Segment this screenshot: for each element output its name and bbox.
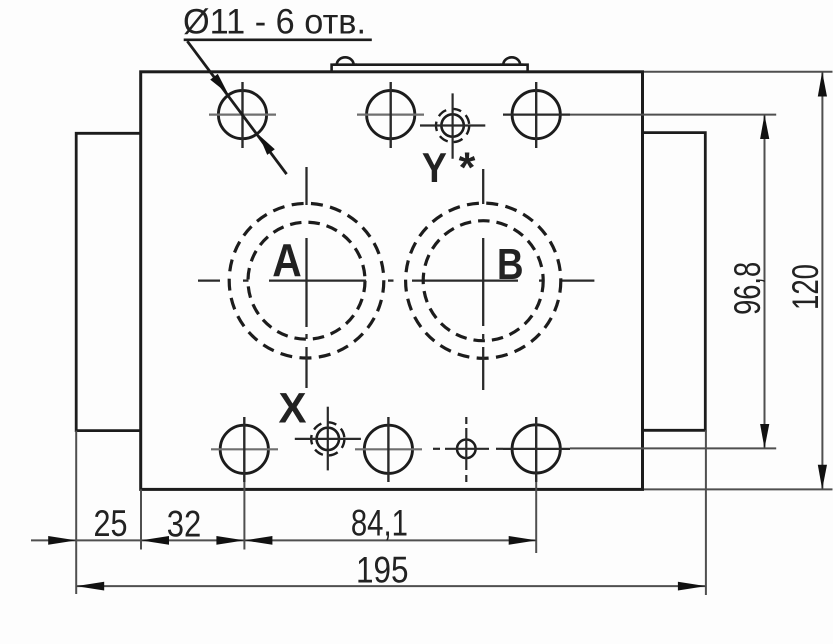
extension line right of bottom-right hole: [570, 447, 776, 449]
port B vertical centerline: [482, 169, 484, 390]
right flange outline: [643, 133, 706, 431]
dim 32 right arrow: [216, 536, 244, 545]
hole H1 top-left circle: [218, 91, 266, 139]
svg-text:Ø11 - 6 отв.: Ø11 - 6 отв.: [183, 3, 366, 42]
port A vertical centerline: [305, 167, 307, 388]
dim 195 left arrow: [76, 582, 104, 591]
port A inner dashed circle: [248, 222, 365, 339]
top tab bar: [332, 65, 528, 72]
dim 96,8 bottom arrow: [760, 424, 769, 448]
svg-text:120: 120: [785, 264, 826, 310]
dimension line 195: [76, 585, 706, 587]
small drain hole circle: [457, 440, 476, 459]
dim 120 top arrow: [818, 72, 827, 97]
pilot hole X centerlines: [295, 407, 361, 471]
hole H4 centerlines: [211, 417, 278, 482]
hole H6 centerlines: [503, 417, 570, 482]
callout leader line: [187, 41, 286, 174]
hole H4 bottom-left circle: [220, 425, 268, 473]
hole H2 top-middle circle: [367, 91, 415, 139]
svg-text:84,1: 84,1: [351, 503, 408, 544]
hole H1 centerlines: [209, 82, 276, 148]
hole H5 centerlines: [355, 417, 422, 482]
svg-text:*: *: [459, 144, 476, 192]
extension line flange left below: [75, 431, 77, 594]
extension line flange right below: [705, 430, 707, 595]
dim 120 bottom arrow: [818, 465, 827, 490]
port A horizontal centerline: [198, 279, 594, 281]
hole H3 top-right circle: [512, 91, 560, 139]
svg-text:32: 32: [167, 504, 202, 545]
hole H6 bottom-right circle: [512, 425, 560, 473]
dim 195 right arrow: [678, 582, 706, 591]
svg-text:195: 195: [356, 550, 409, 591]
dim 84,1 right arrow: [509, 536, 537, 545]
svg-text:96,8: 96,8: [727, 262, 768, 315]
pilot hole Y dashed circle: [436, 109, 469, 142]
dim 25 left arrow: [48, 536, 76, 545]
callout underline: [184, 38, 372, 41]
extension line plate left below: [140, 489, 142, 549]
hole H3 centerlines: [503, 82, 570, 148]
plate body outline: [141, 72, 643, 490]
extension line bottom-right corner: [644, 488, 833, 490]
callout arrowhead lower: [259, 135, 275, 155]
top tab bump right: [500, 57, 524, 64]
dim 84,1 left arrow: [244, 536, 272, 545]
svg-text:25: 25: [94, 503, 128, 544]
extension line top-right corner: [644, 71, 833, 73]
dim 25 right arrow: [141, 536, 169, 545]
dimension line 120: [821, 72, 823, 490]
hole H5 bottom-middle circle: [364, 425, 412, 473]
hole H2 centerlines: [357, 82, 424, 148]
pilot hole Y centerlines: [420, 93, 485, 158]
svg-text:B: B: [497, 240, 524, 289]
dimension line row 25/32/84,1: [31, 539, 537, 541]
port B inner dashed circle: [423, 221, 543, 341]
small drain hole centerlines: [433, 417, 503, 482]
dimension line 96,8: [764, 115, 766, 449]
pilot hole X solid circle: [317, 428, 339, 450]
extension line hole H6 below: [535, 482, 537, 553]
svg-text:X: X: [279, 385, 307, 432]
top tab bump left: [333, 57, 357, 64]
dim 96,8 top arrow: [760, 115, 769, 139]
pilot hole X dashed circle: [311, 422, 344, 455]
port B outer dashed circle: [406, 203, 561, 358]
pilot hole Y solid circle: [441, 114, 463, 136]
svg-text:A: A: [272, 234, 302, 286]
port A outer dashed circle: [229, 203, 384, 358]
callout arrowhead upper: [210, 74, 228, 94]
svg-text:Y: Y: [422, 144, 447, 191]
left flange outline: [76, 133, 141, 430]
extension line right of top-right hole: [570, 114, 776, 116]
extension line hole H4 below: [243, 482, 245, 550]
